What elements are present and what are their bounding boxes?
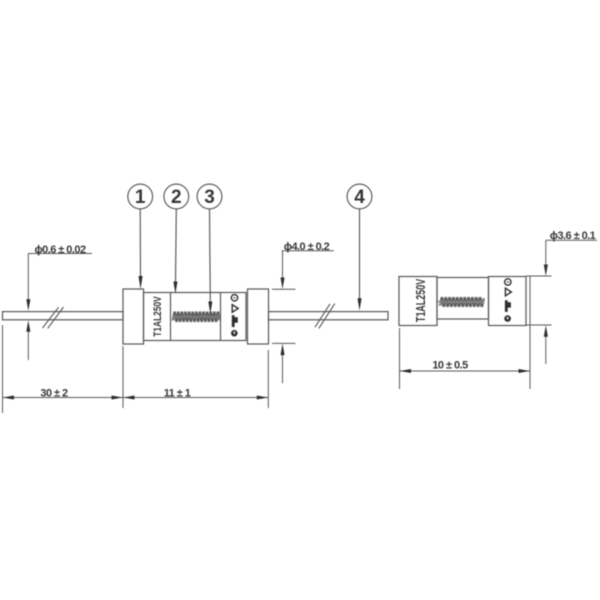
certification symbols left view [231,295,238,337]
body divider 1 [170,293,172,341]
dimension 10 +/- 0.5 [400,276,531,389]
cap top edge extension [526,275,552,277]
cap right (symbols end) [489,277,527,326]
fuse body outline [144,293,247,341]
svg-text:4: 4 [354,187,365,208]
balloon 3 [197,184,222,209]
cert filled circle mark [231,330,238,337]
svg-text:ϕ0.6 ± 0.02: ϕ0.6 ± 0.02 [34,244,85,256]
body divider 2 [220,293,222,341]
dimension dia 0.6 +/- 0.02 [28,254,92,361]
wire lead left [3,312,124,320]
balloon 1 [128,184,153,209]
cert ring mark [505,279,511,285]
spring element left view [172,312,219,323]
balloon 2 leader [175,209,178,283]
break slash 1 [43,307,59,328]
svg-text:T1AL250V: T1AL250V [414,278,428,322]
fuse cap left [123,289,144,344]
wire lead right [269,312,389,320]
dimension dia 3.6 +/- 0.1 [546,240,597,364]
balloon 4 leader [359,209,361,300]
cert blob mark [505,300,511,312]
svg-text:10 ± 0.5: 10 ± 0.5 [432,360,468,372]
balloon 4 [347,184,372,209]
right view [399,276,552,326]
svg-text:3: 3 [204,187,215,208]
svg-text:T1AL250V: T1AL250V [152,296,165,337]
svg-text:2: 2 [171,187,182,208]
balloon 1 leader [139,209,141,278]
cert triangle mark [232,305,238,313]
cap left (marking end) [399,277,437,326]
dimension dia 4.0 +/- 0.2 [282,251,334,383]
balloon 3 leader [209,209,212,303]
cap bottom edge extension [526,324,552,326]
dimension 11 +/- 1 [123,350,268,408]
cap top edge extension [272,288,296,290]
svg-text:11 ± 1: 11 ± 1 [164,388,191,400]
cert blob mark [232,315,238,327]
svg-text:30 ± 2: 30 ± 2 [40,388,68,400]
cert triangle mark [505,288,511,296]
balloon 2 [164,184,189,209]
fuse cap right [248,289,269,344]
break slash 2 [319,304,335,329]
break slash 1 [315,304,330,327]
spring element right view [437,301,439,303]
dimension 30 +/- 2 [3,325,124,413]
svg-text:1: 1 [135,187,146,208]
svg-text:ϕ3.6 ± 0.1: ϕ3.6 ± 0.1 [550,230,596,242]
certification symbols right view [504,279,511,322]
break slash 2 [48,307,64,328]
cap bottom edge extension [272,342,296,344]
cert ring mark [231,295,237,301]
svg-text:ϕ4.0 ± 0.2: ϕ4.0 ± 0.2 [284,241,330,253]
glass middle body [437,278,489,320]
cert filled circle mark [504,315,511,322]
